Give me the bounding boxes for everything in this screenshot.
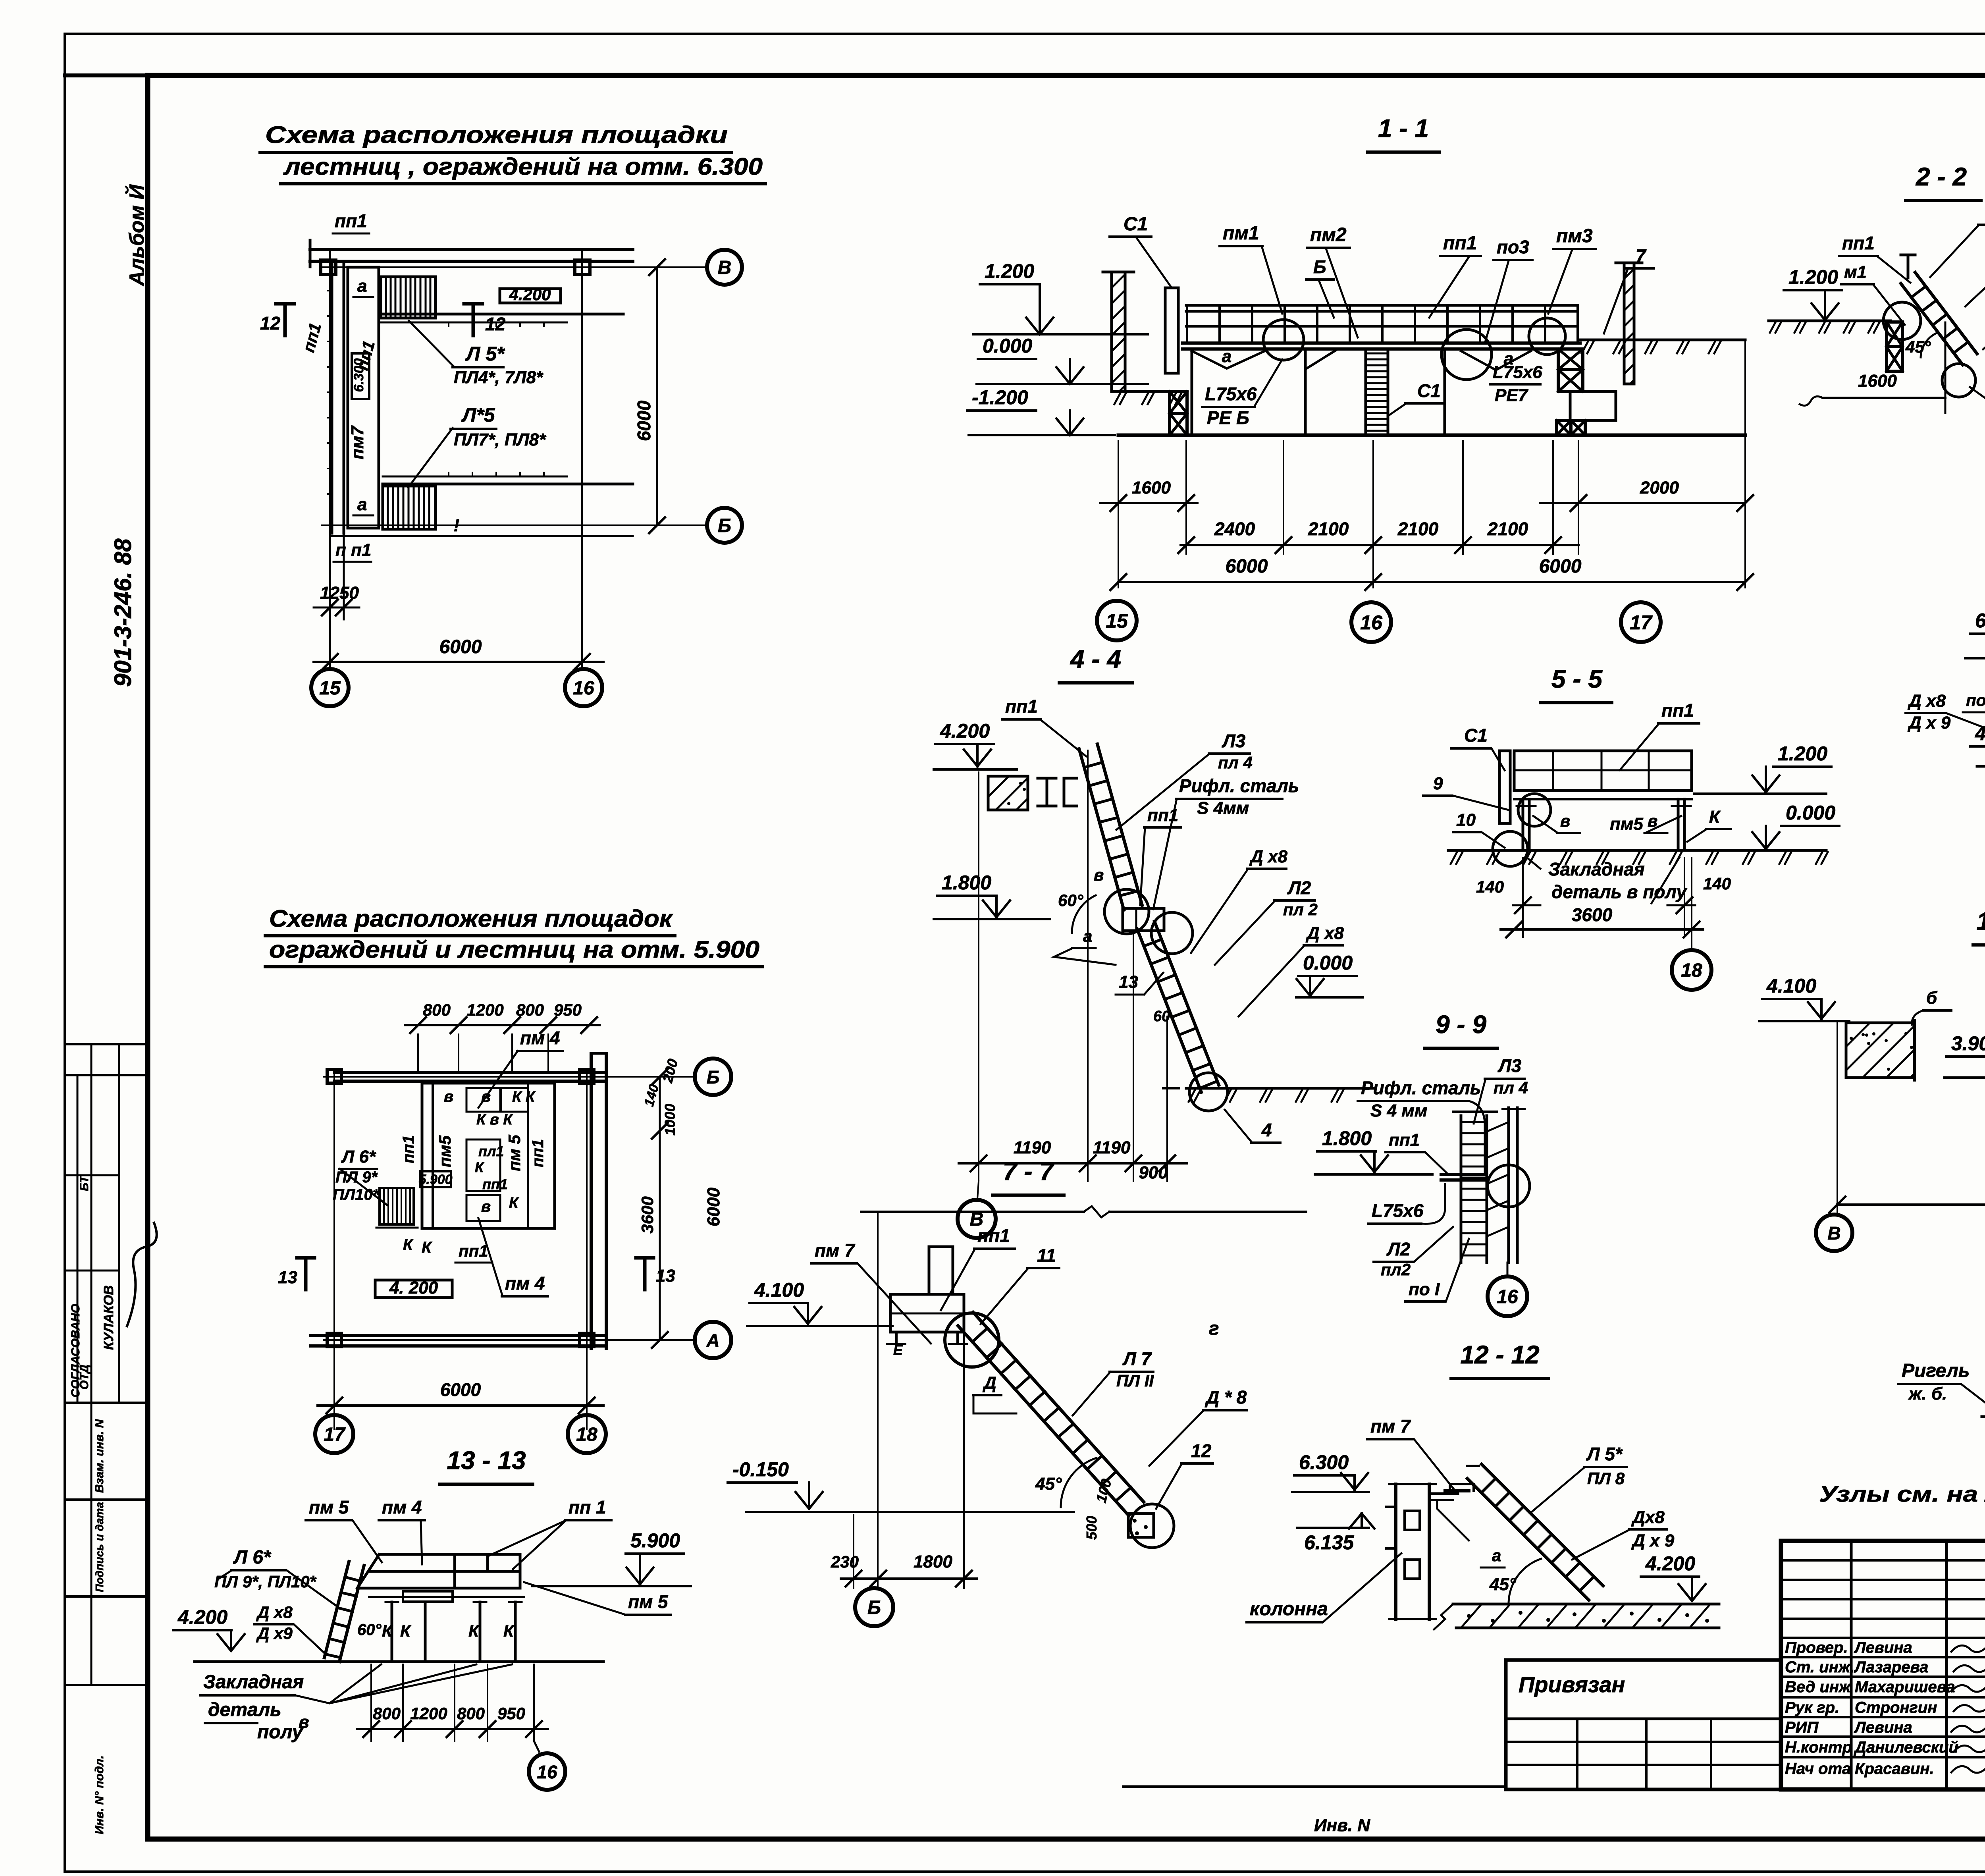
svg-text:пм3: пм3: [1556, 226, 1593, 247]
svg-text:колонна: колонна: [1250, 1598, 1328, 1620]
svg-text:Инв. N: Инв. N: [1314, 1816, 1370, 1835]
section 5-5 floor line: [1448, 849, 1826, 852]
svg-text:Е: Е: [893, 1342, 903, 1358]
svg-text:пп1: пп1: [1842, 233, 1875, 253]
svg-text:С1: С1: [1417, 380, 1441, 401]
svg-text:2400: 2400: [1214, 519, 1255, 539]
svg-text:в: в: [444, 1088, 453, 1105]
svg-text:пп1: пп1: [299, 321, 325, 354]
section 2-2 detail circle top: [1883, 302, 1921, 339]
section 1-1 dim row spans: [1181, 544, 1578, 546]
svg-text:пп1: пп1: [400, 1135, 417, 1163]
svg-text:Схема расположения площадок: Схема расположения площадок: [269, 905, 673, 932]
svg-text:4.200: 4.200: [177, 1606, 227, 1628]
svg-text:Данилевский: Данилевский: [1854, 1739, 1958, 1756]
section 1-1 grid circle 15: [1097, 601, 1137, 640]
svg-text:ограждений и лестниц на отм: ограждений и лестниц на отм. 5.900: [269, 936, 759, 963]
svg-text:1190: 1190: [1093, 1138, 1131, 1157]
svg-text:15: 15: [319, 678, 341, 699]
svg-text:4 - 4: 4 - 4: [1070, 645, 1121, 673]
section 13-13 zakladnaya leaders: [295, 1664, 381, 1703]
svg-text:пп1: пп1: [977, 1225, 1010, 1246]
plan 5.900 stair hatch: [380, 1188, 414, 1224]
svg-text:деталь в полу: деталь в полу: [1551, 881, 1688, 902]
plan 6.300 section mark 12 left: [283, 304, 287, 335]
svg-text:Привязан: Привязан: [1519, 1672, 1625, 1697]
svg-text:Д х8: Д х8: [1249, 847, 1287, 866]
section 1-1 wall under beam 2: [1304, 349, 1307, 435]
svg-text:15: 15: [1106, 610, 1128, 632]
svg-text:16: 16: [573, 678, 594, 699]
svg-text:пм 5: пм 5: [628, 1591, 669, 1612]
section 7-7 ladder top circle: [945, 1313, 999, 1367]
svg-text:пп 1: пп 1: [569, 1497, 606, 1517]
svg-text:К: К: [509, 1195, 519, 1211]
svg-text:4.100: 4.100: [754, 1279, 804, 1301]
section 4-4 grid circle V: [977, 1181, 979, 1199]
svg-text:Левина: Левина: [1854, 1719, 1912, 1736]
section 1-1 grid circle 16: [1351, 602, 1391, 642]
section 1-1 detail circle right: [1529, 318, 1565, 355]
svg-text:4: 4: [1261, 1120, 1272, 1140]
plan 6.300 grid circle B: [707, 508, 742, 543]
svg-text:К К: К К: [512, 1089, 536, 1105]
svg-text:950: 950: [554, 1001, 582, 1019]
title block signatures: [1951, 1643, 1985, 1652]
section 1-1 base under left wall: [1112, 390, 1185, 393]
svg-text:16: 16: [1497, 1286, 1518, 1307]
svg-text:3.900: 3.900: [1951, 1032, 1985, 1055]
svg-text:пп1: пп1: [1661, 700, 1694, 721]
title block verticals: [1850, 1541, 1853, 1789]
svg-text:Л2: Л2: [1287, 877, 1311, 898]
section 12-12 column: [1394, 1484, 1397, 1619]
svg-text:полу: полу: [257, 1722, 304, 1743]
svg-text:Б: Б: [867, 1597, 881, 1618]
svg-text:Закладная: Закладная: [203, 1672, 304, 1693]
svg-text:К: К: [503, 1621, 515, 1640]
section 5-5 grid circle 18: [1691, 858, 1692, 950]
svg-text:Рифл. сталь: Рифл. сталь: [1361, 1078, 1481, 1098]
svg-text:в: в: [481, 1088, 491, 1105]
plan 5.900 grid axes: [333, 1070, 335, 1429]
plan 5.900 left rail: [432, 1083, 434, 1228]
svg-text:17: 17: [324, 1424, 346, 1445]
section 1-1 dim extension lines: [1118, 441, 1119, 554]
svg-text:10 - 10: 10 - 10: [1976, 907, 1985, 935]
section 5-5 left wall: [1499, 751, 1510, 823]
section 5-5 detail circles: [1518, 794, 1551, 826]
svg-text:К: К: [400, 1621, 412, 1640]
svg-text:3600: 3600: [638, 1196, 657, 1233]
section 7-7 dim extensions: [877, 1212, 879, 1588]
section 7-7 platform box: [890, 1294, 964, 1332]
svg-text:Красавин.: Красавин.: [1855, 1760, 1934, 1778]
svg-text:пп1: пп1: [1005, 696, 1038, 717]
svg-text:К в К: К в К: [476, 1111, 513, 1128]
section 1-1 wall under beam 1: [1191, 349, 1193, 435]
svg-text:Л3: Л3: [1497, 1055, 1522, 1076]
svg-text:1000: 1000: [662, 1104, 678, 1136]
svg-text:ОТД: ОТД: [78, 1365, 91, 1390]
section 9-9 wall rails: [1507, 1108, 1510, 1263]
svg-text:Дх8: Дх8: [1631, 1508, 1665, 1527]
plan 6.300 top beam pp1: [310, 248, 633, 251]
svg-text:по I: по I: [1409, 1280, 1440, 1299]
svg-text:Взам. инв. N: Взам. инв. N: [93, 1419, 106, 1493]
svg-text:по3: по3: [1497, 237, 1529, 257]
svg-text:1.200: 1.200: [1778, 742, 1827, 765]
svg-text:пм5: пм5: [436, 1135, 454, 1167]
svg-text:1250: 1250: [320, 583, 359, 603]
section 1-1 ground line right: [1578, 339, 1745, 341]
svg-text:Левина: Левина: [1854, 1639, 1912, 1656]
section 5-5 platform: [1514, 751, 1692, 791]
section 10-10 dim extensions: [1837, 1021, 1838, 1215]
svg-text:Рук гр.: Рук гр.: [1785, 1699, 1839, 1716]
plan 5.900 right wall: [590, 1053, 593, 1348]
section 7-7 column above platform: [929, 1247, 953, 1294]
svg-text:пм 5: пм 5: [309, 1497, 349, 1517]
plan 6.300 grid circle V: [707, 250, 742, 285]
plan 5.900 bottom columns: [327, 1333, 341, 1347]
svg-text:45°: 45°: [1035, 1474, 1062, 1494]
svg-text:5.900: 5.900: [630, 1529, 680, 1552]
section 13-13 grid circle 16: [534, 1741, 539, 1752]
svg-text:1600: 1600: [1132, 478, 1171, 497]
svg-text:1.200: 1.200: [985, 260, 1034, 282]
svg-text:1200: 1200: [466, 1001, 503, 1019]
svg-text:пм 7: пм 7: [1370, 1416, 1411, 1436]
svg-text:г: г: [1209, 1318, 1219, 1339]
svg-text:6000: 6000: [439, 636, 482, 657]
svg-text:9 - 9: 9 - 9: [1436, 1010, 1486, 1039]
section 4-4 ground line: [1186, 1087, 1374, 1090]
svg-text:60°: 60°: [1058, 891, 1084, 910]
section 1-1 cross braced column left: [1170, 391, 1187, 413]
svg-text:ПЛ 8: ПЛ 8: [1587, 1469, 1625, 1488]
plan 6.300 platform edge lines: [381, 313, 623, 316]
svg-text:1190: 1190: [1014, 1138, 1051, 1157]
svg-text:2100: 2100: [1487, 519, 1528, 539]
plan 5.900 bottom dim 6000: [318, 1404, 603, 1407]
plan 6.300 bottom dim 6000: [314, 661, 603, 663]
section 1-1 dim row 6000: [1118, 581, 1745, 583]
section 12-12 floor hatched strip: [1453, 1603, 1719, 1606]
section 13-13 posts with K labels: [391, 1602, 393, 1662]
svg-text:4.200: 4.200: [940, 720, 990, 742]
svg-text:пм 4: пм 4: [505, 1273, 545, 1294]
section 1-1 right cross column: [1558, 349, 1583, 370]
svg-text:пм 4: пм 4: [382, 1497, 422, 1517]
plan 5.900 elevation box 5.900: [420, 1171, 451, 1187]
svg-text:деталь: деталь: [208, 1699, 281, 1720]
svg-text:0.000: 0.000: [1303, 952, 1353, 974]
svg-text:4.200: 4.200: [1645, 1552, 1695, 1575]
svg-text:5.900: 5.900: [418, 1172, 452, 1187]
svg-text:6.700: 6.700: [1975, 609, 1985, 632]
plan 6.300 axis line to circle V: [322, 266, 707, 268]
svg-text:140: 140: [1703, 874, 1731, 893]
plan 5.900 top dims 800 1200 800 950: [417, 1034, 419, 1072]
svg-text:800: 800: [457, 1704, 485, 1723]
svg-text:10: 10: [1456, 810, 1476, 830]
section 1-1 dim row 1600: [1100, 502, 1197, 504]
svg-text:К: К: [422, 1239, 432, 1256]
section 10-10 dim 6000: [1837, 1203, 1985, 1206]
svg-text:Л 6*: Л 6*: [341, 1147, 376, 1166]
svg-text:пм2: пм2: [1310, 224, 1347, 245]
svg-text:пп1: пп1: [1389, 1130, 1420, 1150]
svg-text:16: 16: [537, 1762, 557, 1782]
section 7-7 base plate concrete: [1128, 1514, 1154, 1537]
section 4-4 bottom circle: [1189, 1073, 1228, 1111]
svg-text:В: В: [1827, 1223, 1840, 1244]
section 4-4 I beam symbol: [1038, 777, 1056, 780]
plan 5.900 grid circle 18: [568, 1415, 606, 1453]
svg-text:6.300: 6.300: [1299, 1451, 1349, 1473]
svg-text:Л 7: Л 7: [1122, 1348, 1152, 1369]
svg-text:17: 17: [1630, 611, 1653, 634]
svg-text:а: а: [357, 276, 367, 296]
svg-text:-1.200: -1.200: [972, 386, 1028, 409]
plan 6.300 platform pm7: [348, 267, 379, 528]
plan 6.300 axis line to circle B: [322, 524, 707, 526]
svg-text:2100: 2100: [1308, 519, 1349, 539]
section 10-10 left concrete block: [1846, 1023, 1914, 1078]
svg-text:Б: Б: [1313, 256, 1326, 277]
section 1-1 floor line: [1118, 434, 1745, 437]
section 1-1 detail circle mid-right: [1442, 330, 1492, 380]
svg-text:1800: 1800: [913, 1552, 952, 1571]
section 13-13 platform: [379, 1553, 520, 1556]
svg-text:18: 18: [576, 1424, 597, 1445]
plan 5.900 section mark 13 left: [304, 1258, 308, 1290]
svg-text:0.000: 0.000: [983, 335, 1032, 357]
section 13-13 steep ladder: [324, 1562, 349, 1658]
plan 6.300 grid circle 15: [311, 669, 349, 706]
svg-text:Узлы см. на листе КМ7.: Узлы см. на листе КМ7.: [1819, 1481, 1985, 1506]
plan 5.900 top beam: [334, 1071, 604, 1074]
section 13-13 under platform beam: [369, 1596, 524, 1598]
section 1-1 grid circle 17: [1621, 602, 1661, 642]
plan 6.300 grid circle 16: [565, 669, 602, 706]
svg-text:пп1: пп1: [1147, 806, 1178, 825]
section 1-1 panel C1: [1165, 288, 1178, 373]
section 1-1 detail circle left: [1263, 320, 1304, 360]
svg-text:800: 800: [373, 1704, 401, 1723]
section 12-12 level 6.135: [1297, 1527, 1369, 1529]
svg-text:К: К: [382, 1621, 393, 1640]
section 10-10 grid circle V: [1816, 1215, 1852, 1251]
section 7-7 top level line with break: [861, 1211, 1084, 1213]
svg-text:5 - 5: 5 - 5: [1551, 665, 1603, 693]
svg-text:Д х8: Д х8: [1305, 924, 1344, 943]
section 2-2 detail circle bottom: [1942, 364, 1975, 397]
svg-text:пм7: пм7: [348, 425, 367, 459]
svg-text:4.200: 4.200: [1975, 722, 1985, 744]
svg-text:Рифл. сталь: Рифл. сталь: [1179, 775, 1299, 796]
svg-text:Ригель: Ригель: [1902, 1360, 1970, 1381]
section 4-4 concrete block: [988, 776, 1028, 810]
svg-text:4.100: 4.100: [1766, 975, 1816, 997]
svg-text:Б: Б: [718, 515, 731, 536]
svg-text:лестниц , ограждений на отм.: лестниц , ограждений на отм. 6.300: [283, 153, 763, 180]
section 9-9 vertical ladder: [1460, 1116, 1463, 1263]
section 11-11 rigel profile: [1982, 1349, 1985, 1417]
svg-text:пл1: пл1: [478, 1143, 504, 1159]
title block outer box: [1781, 1541, 1985, 1789]
plan 5.900 bottom beam: [311, 1334, 606, 1337]
plan 5.900 elevation tag 4.200: [375, 1280, 452, 1298]
svg-text:500: 500: [1083, 1516, 1100, 1540]
svg-text:Л 6*: Л 6*: [233, 1547, 272, 1568]
svg-text:4. 200: 4. 200: [389, 1278, 438, 1298]
section 4-4 dim extensions: [978, 772, 979, 1181]
section B-B floor line: [1977, 765, 1985, 768]
svg-text:в: в: [1560, 812, 1570, 830]
svg-text:900: 900: [1139, 1163, 1168, 1182]
section 2-2 cross column: [1887, 322, 1902, 347]
plan 5.900 top columns: [327, 1070, 341, 1083]
svg-text:а: а: [1492, 1546, 1501, 1565]
plan 6.300 right dim 6000 vertical: [656, 267, 658, 525]
svg-text:РЕ7: РЕ7: [1495, 386, 1529, 405]
section 4-4 mid landing: [1123, 908, 1164, 931]
plan 6.300 bottom small dim 1250: [329, 576, 331, 619]
svg-text:13: 13: [278, 1268, 297, 1287]
svg-text:б: б: [1926, 988, 1938, 1008]
svg-text:Д х 9: Д х 9: [1631, 1531, 1675, 1550]
svg-text:а: а: [357, 495, 367, 514]
svg-text:РИП: РИП: [1785, 1719, 1819, 1736]
plan 5.900 axis to circle B: [324, 1076, 696, 1078]
section 1-1 corbel right with label a: [1461, 351, 1531, 370]
svg-text:901-3-246. 88: 901-3-246. 88: [110, 538, 136, 687]
svg-text:140: 140: [1476, 877, 1504, 896]
svg-text:Закладная: Закладная: [1548, 859, 1645, 879]
left stamp signature: [127, 1223, 157, 1326]
svg-text:Л 5*: Л 5*: [465, 343, 505, 365]
section 12-12 ladder 45: [1467, 1479, 1589, 1600]
svg-text:6000: 6000: [704, 1188, 723, 1226]
svg-text:Д: Д: [982, 1373, 996, 1393]
svg-text:Л 5*: Л 5*: [1586, 1444, 1623, 1464]
plan 5.900 axis to circle A: [324, 1339, 696, 1341]
section 1-1 right wall hatched: [1624, 263, 1634, 384]
svg-text:950: 950: [497, 1704, 525, 1723]
svg-text:1.800: 1.800: [1322, 1127, 1372, 1149]
plan 6.300 elevation box 6.300: [352, 353, 369, 399]
svg-text:L75х6: L75х6: [1493, 362, 1542, 382]
top band line: [65, 73, 1985, 77]
plan 5.900 platform outline: [422, 1083, 555, 1228]
svg-text:Ст. инж.: Ст. инж.: [1785, 1658, 1854, 1676]
svg-text:7 - 7: 7 - 7: [1003, 1157, 1055, 1186]
svg-text:13: 13: [656, 1266, 675, 1286]
svg-text:Альбом Й: Альбом Й: [125, 184, 148, 287]
svg-text:пл2: пл2: [1381, 1260, 1411, 1279]
plan 6.300 elevation tag 4.200: [500, 289, 561, 303]
svg-text:Д х9: Д х9: [256, 1624, 293, 1643]
svg-text:140: 140: [642, 1083, 662, 1109]
section 7-7 base circle: [1130, 1504, 1174, 1548]
svg-text:пм 5: пм 5: [505, 1135, 524, 1171]
svg-text:по12: по12: [1966, 691, 1985, 710]
svg-text:ПЛ II: ПЛ II: [1116, 1371, 1154, 1390]
svg-text:0.000: 0.000: [1786, 802, 1835, 824]
section 1-1 internal stair C1: [1364, 349, 1367, 435]
svg-text:12: 12: [260, 313, 281, 334]
svg-text:пп1: пп1: [335, 210, 367, 231]
svg-text:РЕ Б: РЕ Б: [1207, 407, 1249, 428]
svg-text:Д х8: Д х8: [256, 1603, 293, 1621]
svg-text:3600: 3600: [1572, 904, 1613, 925]
svg-text:К: К: [1709, 807, 1721, 827]
svg-text:Б: Б: [707, 1067, 720, 1087]
plan 6.300 column squares top: [321, 260, 336, 274]
svg-text:К: К: [475, 1159, 485, 1175]
svg-text:КУЛАКОВ: КУЛАКОВ: [101, 1285, 116, 1350]
svg-text:Лазарева: Лазарева: [1854, 1658, 1928, 1676]
line left of privyazan: [1124, 1785, 1506, 1788]
svg-text:Подпись и дата: Подпись и дата: [93, 1502, 106, 1592]
svg-text:пм5: пм5: [1610, 814, 1643, 834]
title block left row lines: [1781, 1559, 1985, 1562]
svg-text:п п1: п п1: [335, 540, 371, 560]
section 1-1 corbel left with label a: [1192, 351, 1265, 368]
privyazan block: [1506, 1658, 1781, 1662]
section 1-1 guard rail: [1186, 304, 1577, 307]
section 7-7 ladder 45: [958, 1326, 1129, 1515]
plan 5.900 section mark 13 right: [643, 1258, 647, 1290]
svg-text:Н.контр: Н.контр: [1785, 1739, 1852, 1756]
section 12-12 bracket to ladder: [1429, 1492, 1458, 1495]
svg-text:пп1: пп1: [529, 1139, 547, 1167]
section 13-13 floor line: [195, 1660, 603, 1663]
plan 6.300 grid axis 15: [329, 249, 331, 669]
svg-text:пл 2: пл 2: [1283, 900, 1318, 919]
svg-text:пп1: пп1: [459, 1242, 488, 1260]
svg-text:13: 13: [1119, 972, 1138, 992]
section 1-1 wall under beam 3: [1443, 349, 1446, 435]
svg-text:Нач ота: Нач ота: [1785, 1760, 1851, 1778]
svg-text:Схема расположения площадки: Схема расположения площадки: [265, 121, 728, 148]
plan 6.300 section mark 12 right: [472, 304, 475, 335]
plan 5.900 grid circle 17: [315, 1415, 353, 1453]
section 9-9 detail circle: [1488, 1165, 1530, 1207]
svg-text:Д х 9: Д х 9: [1907, 713, 1951, 733]
svg-text:L75х6: L75х6: [1205, 384, 1257, 404]
svg-text:12: 12: [485, 314, 506, 334]
svg-text:пм1: пм1: [1223, 223, 1259, 244]
svg-text:6.135: 6.135: [1304, 1531, 1354, 1554]
svg-text:2000: 2000: [1640, 478, 1679, 497]
svg-text:2100: 2100: [1397, 519, 1439, 539]
svg-text:Инв. N° подл.: Инв. N° подл.: [93, 1755, 106, 1834]
svg-text:пм 4: пм 4: [520, 1028, 560, 1048]
plan 6.300 bottom stair hatch: [383, 486, 436, 529]
svg-text:6000: 6000: [634, 400, 654, 441]
svg-text:пп1: пп1: [353, 339, 378, 372]
svg-text:230: 230: [831, 1552, 859, 1571]
left stamp table: [65, 1043, 148, 1045]
svg-text:11: 11: [1037, 1245, 1056, 1266]
svg-text:12 - 12: 12 - 12: [1460, 1340, 1539, 1369]
plan 6.300 left rail pp1: [331, 261, 333, 533]
svg-text:60°: 60°: [357, 1621, 382, 1639]
section 1-1 platform beam: [1183, 341, 1580, 345]
